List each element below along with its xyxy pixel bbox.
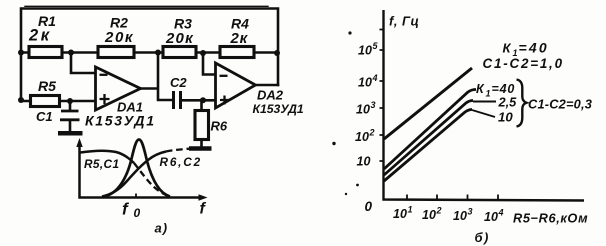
- svg-text:3: 3: [371, 100, 376, 110]
- svg-text:f: f: [200, 201, 207, 218]
- svg-text:20к: 20к: [165, 30, 194, 47]
- svg-text:К153УД1: К153УД1: [85, 113, 156, 129]
- svg-text:10: 10: [453, 209, 467, 223]
- svg-text:1: 1: [486, 89, 491, 99]
- svg-text:f, Гц: f, Гц: [389, 14, 419, 29]
- svg-text:К153УД1: К153УД1: [253, 102, 304, 116]
- svg-text:10: 10: [356, 103, 370, 117]
- svg-text:20к: 20к: [104, 29, 134, 46]
- svg-text:С1-С2=1,0: С1-С2=1,0: [483, 56, 564, 71]
- svg-text:10: 10: [484, 210, 498, 224]
- svg-text:К: К: [503, 41, 512, 56]
- svg-text:10: 10: [357, 155, 371, 169]
- svg-text:R5−R6,кОм: R5−R6,кОм: [513, 211, 588, 226]
- svg-text:10: 10: [393, 207, 407, 221]
- svg-text:а): а): [155, 221, 169, 236]
- svg-text:2: 2: [369, 128, 375, 138]
- svg-text:R6,С2: R6,С2: [160, 155, 202, 169]
- svg-text:0: 0: [365, 199, 373, 214]
- svg-text:R5: R5: [38, 78, 56, 94]
- svg-text:10: 10: [358, 76, 372, 90]
- svg-text:f: f: [122, 200, 130, 219]
- svg-text:R6: R6: [211, 119, 228, 134]
- svg-text:С1-С2=0,3: С1-С2=0,3: [528, 97, 592, 112]
- svg-text:=40: =40: [519, 40, 549, 56]
- svg-text:10: 10: [355, 130, 369, 144]
- svg-text:3: 3: [468, 207, 473, 217]
- svg-text:К: К: [476, 82, 485, 96]
- svg-text:10: 10: [498, 110, 513, 125]
- svg-text:DA2: DA2: [257, 88, 284, 103]
- svg-text:0: 0: [134, 206, 141, 220]
- svg-text:б): б): [475, 230, 490, 245]
- svg-text:2к: 2к: [28, 27, 52, 45]
- svg-text:R5,С1: R5,С1: [84, 157, 119, 171]
- svg-text:10: 10: [358, 44, 372, 58]
- svg-text:4: 4: [498, 208, 504, 218]
- svg-text:10: 10: [422, 208, 436, 222]
- svg-text:С2: С2: [170, 75, 187, 90]
- svg-text:2к: 2к: [230, 30, 249, 47]
- svg-text:1: 1: [408, 205, 413, 215]
- svg-text:4: 4: [372, 73, 378, 83]
- svg-text:С1: С1: [36, 109, 53, 124]
- svg-text:2: 2: [436, 206, 442, 216]
- svg-text:5: 5: [373, 41, 379, 51]
- svg-text:2,5: 2,5: [498, 95, 518, 110]
